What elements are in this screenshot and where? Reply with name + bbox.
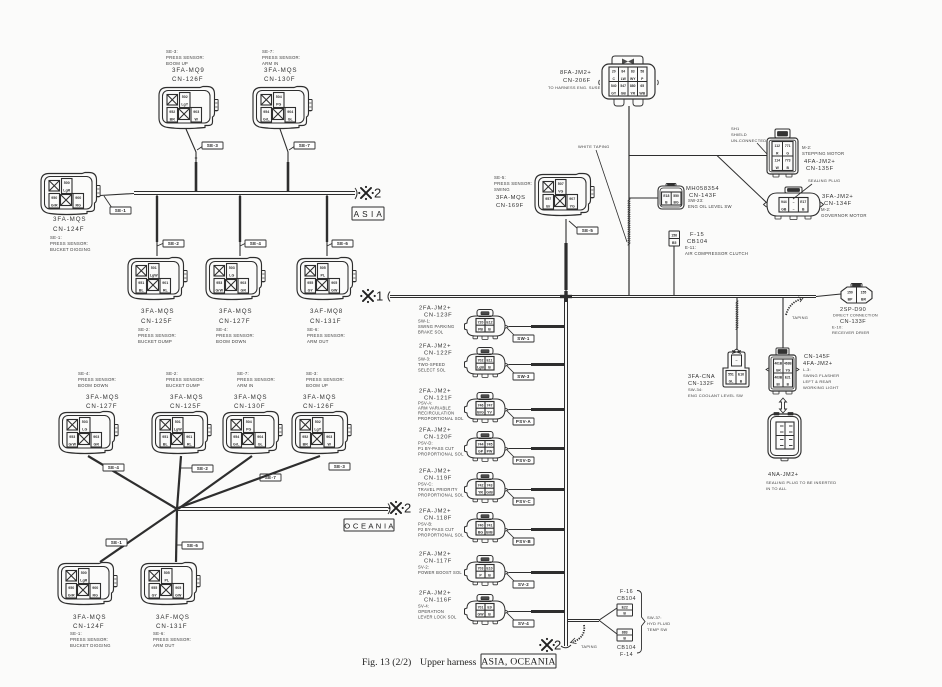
svg-text:CN-133F: CN-133F <box>840 319 866 325</box>
svg-text:701: 701 <box>478 606 484 610</box>
svg-text:3FA-MQS: 3FA-MQS <box>141 308 174 315</box>
svg-text:65: 65 <box>640 84 644 88</box>
svg-text:SV-4:: SV-4: <box>418 604 429 609</box>
svg-text:BR: BR <box>861 297 866 301</box>
taping arc near receiver drier <box>786 299 801 315</box>
svg-text:3FA-MQS: 3FA-MQS <box>264 67 297 74</box>
svg-text:900: 900 <box>75 196 81 200</box>
svg-text:ENG OIL LEVEL SW: ENG OIL LEVEL SW <box>688 204 732 209</box>
svg-text:955: 955 <box>307 281 313 285</box>
svg-text:TAPING: TAPING <box>581 644 597 649</box>
label box SE-6 (oceania) <box>176 544 183 546</box>
connector CN-126F press sensor boom up (ASIA) <box>159 87 218 129</box>
wire CN-116F to spine <box>509 611 564 613</box>
svg-text:E11: E11 <box>486 359 492 363</box>
wire CN-206F down to bus *1 (white taping) <box>628 106 630 295</box>
svg-text:SE-4: SE-4 <box>250 241 262 246</box>
svg-text:112: 112 <box>775 144 781 148</box>
svg-text:SEALING PLUG: SEALING PLUG <box>808 178 840 183</box>
svg-text:PRESS SENSOR:: PRESS SENSOR: <box>237 377 275 382</box>
wire CN-130F to ASIA bus <box>280 129 288 191</box>
svg-text:PROPORTIONAL SOL: PROPORTIONAL SOL <box>418 532 464 537</box>
svg-text:SHIELD: SHIELD <box>731 132 747 137</box>
label box SE-3 (oceania) <box>329 463 350 470</box>
svg-text:744: 744 <box>478 443 484 447</box>
svg-text:ENG COOLANT LEVEL SW: ENG COOLANT LEVEL SW <box>688 393 743 398</box>
svg-text:BUCKET DIGGING: BUCKET DIGGING <box>70 643 111 648</box>
svg-text:SV-4: SV-4 <box>518 621 529 626</box>
svg-text:GrW: GrW <box>68 442 76 446</box>
svg-text:TWO-SPEED: TWO-SPEED <box>418 362 445 367</box>
svg-text:944: 944 <box>781 200 787 204</box>
svg-text:BOOM UP: BOOM UP <box>166 61 188 66</box>
svg-text:ARM IN: ARM IN <box>262 61 279 66</box>
svg-text:ARM IN: ARM IN <box>237 383 254 388</box>
svg-text:703: 703 <box>478 567 484 571</box>
svg-text:YV: YV <box>487 411 492 415</box>
label box SE-1 (oceania) <box>106 539 127 546</box>
svg-text:747: 747 <box>487 404 493 408</box>
svg-text:2FA-JM2+: 2FA-JM2+ <box>419 591 451 597</box>
svg-text:P1 BY-PASS CUT: P1 BY-PASS CUT <box>418 446 455 451</box>
svg-text:954: 954 <box>233 435 239 439</box>
label box SE-4 <box>240 243 246 246</box>
connector CN-132F coolant level switch <box>723 349 749 387</box>
svg-text:CN-206F: CN-206F <box>563 78 591 84</box>
svg-text:83: 83 <box>631 70 635 74</box>
label box SE-6 <box>327 243 333 246</box>
svg-text:SE-4: SE-4 <box>108 465 120 470</box>
connector F-15 CB104 air compressor clutch <box>669 231 680 246</box>
svg-text:PRESS SENSOR:: PRESS SENSOR: <box>306 377 344 382</box>
svg-text:SV-2: SV-2 <box>518 582 529 587</box>
svg-text:CN-130F: CN-130F <box>264 76 295 83</box>
svg-text:PRESS SENSOR:: PRESS SENSOR: <box>307 333 345 338</box>
svg-text:Br: Br <box>546 204 551 208</box>
svg-text:3FA-MQS: 3FA-MQS <box>234 394 267 401</box>
svg-text:155: 155 <box>861 290 867 294</box>
svg-text:LgY: LgY <box>181 103 188 107</box>
connector CN-126F press sensor boom up (OCEANIA) <box>292 412 351 454</box>
svg-text:883: 883 <box>622 631 628 635</box>
svg-text:BrG: BrG <box>477 411 484 415</box>
svg-text:773: 773 <box>785 159 791 163</box>
svg-text:M-2:: M-2: <box>821 207 831 212</box>
svg-text:PRESS SENSOR:: PRESS SENSOR: <box>153 637 191 642</box>
label box SE-7 <box>289 146 295 150</box>
label box SE-2 (oceania) <box>180 467 193 469</box>
svg-text:PB: PB <box>478 328 483 332</box>
svg-text:503: 503 <box>82 420 88 424</box>
svg-text:GOVERNOR MOTOR: GOVERNOR MOTOR <box>821 213 867 218</box>
ASIA bus (*2) <box>134 191 355 193</box>
svg-text:BUCKET DUMP: BUCKET DUMP <box>166 383 200 388</box>
label box SE-4 (oceania) <box>103 464 124 471</box>
svg-text:PRESS SENSOR:: PRESS SENSOR: <box>70 637 108 642</box>
svg-text:SE-5: SE-5 <box>582 228 594 233</box>
svg-text:SE-7:: SE-7: <box>262 49 274 54</box>
svg-text:3FA-MQS: 3FA-MQS <box>170 394 203 401</box>
svg-text:OPERATION: OPERATION <box>418 609 444 614</box>
svg-text:W: W <box>195 117 199 121</box>
wire CN-169F to bus *1 <box>565 219 567 295</box>
svg-text:SELECT SOL: SELECT SOL <box>418 367 446 372</box>
svg-text:PSV-C: PSV-C <box>516 499 532 504</box>
svg-text:503: 503 <box>229 266 235 270</box>
svg-text:SWING: SWING <box>494 187 510 192</box>
svg-text:VG: VG <box>558 190 563 194</box>
svg-text:GW: GW <box>331 288 338 292</box>
svg-text:907: 907 <box>569 197 575 201</box>
svg-text:E10: E10 <box>486 567 492 571</box>
svg-text:2FA-JM2+: 2FA-JM2+ <box>419 344 451 350</box>
svg-text:CN-127F: CN-127F <box>219 318 250 325</box>
svg-text:GW: GW <box>477 613 484 617</box>
connector CN-133F receiver drier <box>841 284 872 304</box>
svg-text:B5: B5 <box>672 241 676 245</box>
svg-text:SE-2:: SE-2: <box>138 327 150 332</box>
wire CN-126F to ASIA bus <box>186 129 196 191</box>
wire branch to oil level switch <box>629 197 658 199</box>
svg-text:CN-124F: CN-124F <box>73 623 104 630</box>
svg-text:E16: E16 <box>738 373 744 377</box>
connector CN-135F stepping motor <box>767 129 798 177</box>
svg-text:BG: BG <box>674 200 679 204</box>
label box SE-7 (oceania) <box>260 474 281 481</box>
svg-text:547: 547 <box>620 84 626 88</box>
reference mark *2 (spine bottom) <box>542 640 552 650</box>
connector 4NA-JM2+ sealing plug <box>768 413 801 461</box>
svg-text:CN-124F: CN-124F <box>53 226 84 233</box>
label box SE-3 <box>197 146 203 150</box>
connector CN-134F governor motor <box>764 187 824 220</box>
svg-text:LgB: LgB <box>477 366 484 370</box>
label box SW-3 <box>507 366 515 374</box>
svg-text:SW-1: SW-1 <box>517 336 530 341</box>
svg-text:951: 951 <box>162 435 168 439</box>
svg-text:Fig. 13 (2/2): Fig. 13 (2/2) <box>362 657 411 668</box>
svg-text:SH1: SH1 <box>731 126 740 131</box>
svg-text:CN-126F: CN-126F <box>172 76 203 83</box>
svg-text:GrL: GrL <box>233 442 240 446</box>
svg-text:742: 742 <box>478 484 484 488</box>
svg-text:BL: BL <box>163 442 169 446</box>
svg-text:BP: BP <box>848 297 853 301</box>
label box PSV-D <box>507 450 515 458</box>
wire drop to CN-131F <box>326 195 328 256</box>
svg-text:HYD FLUID: HYD FLUID <box>647 621 670 626</box>
svg-text:YR: YR <box>630 91 635 95</box>
svg-text:2: 2 <box>554 638 561 653</box>
svg-text:905: 905 <box>175 586 181 590</box>
leader shield <box>757 143 767 154</box>
svg-text:GR: GR <box>94 442 100 446</box>
svg-text:GL: GL <box>258 442 264 446</box>
svg-text:RECEIVER DRIER: RECEIVER DRIER <box>832 330 870 335</box>
svg-text:GY: GY <box>308 288 314 292</box>
svg-text:4FA-JM2+: 4FA-JM2+ <box>804 159 835 165</box>
svg-text:2FA-JM2+: 2FA-JM2+ <box>419 389 451 395</box>
svg-text:LgW: LgW <box>174 428 182 432</box>
svg-text:903: 903 <box>93 435 99 439</box>
wire CN-130F oceania to junction <box>178 456 252 509</box>
svg-text:540: 540 <box>611 84 617 88</box>
svg-text:500: 500 <box>81 571 87 575</box>
svg-text:3FA-MQS: 3FA-MQS <box>73 614 106 621</box>
connector CN-124F press sensor bucket digging (ASIA) <box>41 173 100 215</box>
svg-text:TEMP SW: TEMP SW <box>647 627 667 632</box>
svg-text:W: W <box>328 442 332 446</box>
svg-text:SE-3:: SE-3: <box>166 49 178 54</box>
svg-text:SW-23:: SW-23: <box>688 198 704 203</box>
wire branch to governor motor <box>717 156 767 204</box>
svg-text:905: 905 <box>331 281 337 285</box>
svg-text:E22: E22 <box>622 606 628 610</box>
wire CN-123F to spine <box>509 326 564 328</box>
svg-text:502: 502 <box>182 95 188 99</box>
svg-text:CN-125F: CN-125F <box>141 318 172 325</box>
svg-text:SV-2:: SV-2: <box>418 565 429 570</box>
svg-text:504: 504 <box>246 420 252 424</box>
svg-text:953: 953 <box>69 435 75 439</box>
svg-text:501: 501 <box>151 266 157 270</box>
svg-text:LG: LG <box>229 274 234 278</box>
OCEANIA box label <box>344 519 394 531</box>
svg-text:505: 505 <box>320 266 326 270</box>
svg-text:PSV-D: PSV-D <box>516 458 531 463</box>
svg-text:156: 156 <box>671 234 677 238</box>
wire junction to CN-124F (oceania) <box>100 509 177 562</box>
svg-text:3FA-MQS: 3FA-MQS <box>496 195 526 201</box>
svg-text:WHITE TAPING: WHITE TAPING <box>578 144 610 149</box>
connector CN-127F press sensor boom down (OCEANIA) <box>59 412 118 454</box>
svg-text:PROPORTIONAL SOL: PROPORTIONAL SOL <box>418 451 464 456</box>
leader white taping <box>596 150 627 242</box>
svg-text:951: 951 <box>138 281 144 285</box>
svg-text:TRAVEL PRIORITY: TRAVEL PRIORITY <box>418 487 458 492</box>
svg-text:Upper harness: Upper harness <box>420 657 477 668</box>
svg-text:903: 903 <box>326 435 332 439</box>
wire spine to temp switch fuses <box>568 619 599 621</box>
bus end to receiver drier <box>816 294 841 297</box>
svg-text:SE-7: SE-7 <box>299 143 311 148</box>
svg-text:G: G <box>786 151 789 155</box>
svg-text:903: 903 <box>240 281 246 285</box>
svg-text:SW-1:: SW-1: <box>418 319 431 324</box>
svg-text:LW: LW <box>621 77 627 81</box>
svg-text:P2 BY-PASS CUT: P2 BY-PASS CUT <box>418 527 455 532</box>
svg-text:3FA-MQS: 3FA-MQS <box>219 308 252 315</box>
svg-text:GY: GY <box>611 91 617 95</box>
fuse box E22 (F-16) <box>617 604 633 616</box>
svg-text:CN-135F: CN-135F <box>806 166 834 172</box>
svg-text:PL: PL <box>164 579 169 583</box>
svg-text:GrR: GrR <box>51 203 58 207</box>
double arrow to sealing plug <box>780 398 787 413</box>
svg-text:741: 741 <box>487 524 493 528</box>
svg-text:PRESS SENSOR:: PRESS SENSOR: <box>78 377 116 382</box>
svg-text:LgY: LgY <box>314 428 321 432</box>
wire CN-125F oceania to junction <box>177 456 181 509</box>
connector CN-130F press sensor arm in (OCEANIA) <box>223 412 282 454</box>
svg-text:AIR COMPRESSOR CLUTCH: AIR COMPRESSOR CLUTCH <box>685 251 748 256</box>
svg-text:901: 901 <box>186 435 192 439</box>
connector CN-125F press sensor bucket dump (ASIA) <box>128 258 187 300</box>
svg-text:2SP-D90: 2SP-D90 <box>840 307 866 313</box>
svg-text:SE-2: SE-2 <box>168 241 180 246</box>
svg-text:YR: YR <box>478 491 483 495</box>
svg-text:PSV-D:: PSV-D: <box>418 441 433 446</box>
svg-text:551: 551 <box>728 373 734 377</box>
svg-text:746: 746 <box>478 404 484 408</box>
svg-text:SE-2:: SE-2: <box>166 371 178 376</box>
svg-text:TO HARNESS ENG. SUSE: TO HARNESS ENG. SUSE <box>548 85 601 90</box>
svg-text:950: 950 <box>51 196 57 200</box>
svg-text:LgW: LgW <box>150 274 158 278</box>
svg-text:E18: E18 <box>663 194 669 198</box>
svg-text:702: 702 <box>478 359 484 363</box>
connector CN-206F to harness engine <box>599 56 659 106</box>
svg-text:PRESS SENSOR:: PRESS SENSOR: <box>138 333 176 338</box>
wire CN-117F to spine <box>509 572 564 574</box>
svg-text:A S I A: A S I A <box>354 210 383 219</box>
svg-text:PRESS SENSOR:: PRESS SENSOR: <box>166 55 204 60</box>
svg-text:–: – <box>793 207 795 211</box>
wire CN-124F to ASIA bus <box>100 194 134 196</box>
svg-text:PRESS SENSOR:: PRESS SENSOR: <box>166 377 204 382</box>
svg-text:PRESS SENSOR:: PRESS SENSOR: <box>216 333 254 338</box>
svg-text:E-10:: E-10: <box>832 325 843 330</box>
svg-text:3FA-MQS: 3FA-MQS <box>303 394 336 401</box>
svg-text:CN-130F: CN-130F <box>234 403 265 410</box>
spine bus vertical *2 <box>564 298 566 646</box>
svg-text:GR: GR <box>241 288 247 292</box>
svg-text:E21: E21 <box>785 375 791 379</box>
svg-text:952: 952 <box>169 110 175 114</box>
wire CN-120F to spine <box>509 448 564 450</box>
svg-text:O C E A N I A: O C E A N I A <box>344 522 394 531</box>
svg-text:SE-4:: SE-4: <box>216 327 228 332</box>
svg-text:502: 502 <box>315 420 321 424</box>
connector CN-124F press sensor bucket digging (OCEANIA) <box>58 563 117 605</box>
svg-text:900: 900 <box>92 586 98 590</box>
svg-text:2FA-JM2+: 2FA-JM2+ <box>419 306 451 312</box>
svg-text:954: 954 <box>263 110 269 114</box>
fuse box 883 (F-14) <box>617 629 633 641</box>
svg-text:PRESS SENSOR:: PRESS SENSOR: <box>262 55 300 60</box>
svg-text:PSV-C:: PSV-C: <box>418 482 433 487</box>
svg-text:4NA-JM2+: 4NA-JM2+ <box>768 472 799 478</box>
svg-text:SW-3: SW-3 <box>517 374 530 379</box>
svg-text:3FA-MQ9: 3FA-MQ9 <box>172 67 205 74</box>
svg-text:YG: YG <box>570 204 575 208</box>
svg-text:GY: GY <box>152 593 158 597</box>
svg-text:BrB: BrB <box>486 531 493 535</box>
svg-text:E12: E12 <box>486 321 492 325</box>
wire CN-119F to spine <box>509 489 564 491</box>
svg-text:2: 2 <box>374 186 381 201</box>
svg-text:740: 740 <box>478 524 484 528</box>
svg-text:953: 953 <box>216 281 222 285</box>
svg-text:3FA-JM2+: 3FA-JM2+ <box>822 194 853 200</box>
wire CN-122F to spine <box>509 364 564 366</box>
svg-text:SE-4:: SE-4: <box>78 371 90 376</box>
svg-text:SE-3: SE-3 <box>207 143 219 148</box>
svg-text:SE-6: SE-6 <box>187 543 199 548</box>
svg-text:SW-34:: SW-34: <box>688 387 703 392</box>
connector CN-143F oil level switch <box>658 184 684 210</box>
wire bus to CN-145F <box>782 298 784 348</box>
svg-text:F-14: F-14 <box>620 652 633 658</box>
label box SE-1 <box>104 196 112 208</box>
svg-text:463B: 463B <box>784 361 792 365</box>
svg-text:BOOM UP: BOOM UP <box>306 383 328 388</box>
label box PSV-A <box>507 411 515 419</box>
connector CN-145F swing flasher <box>766 348 799 394</box>
svg-text:SE-3:: SE-3: <box>306 371 318 376</box>
svg-text:901: 901 <box>162 281 168 285</box>
svg-text:BL: BL <box>139 288 145 292</box>
label box SE-5 <box>569 221 578 229</box>
svg-text:BG: BG <box>478 531 484 535</box>
svg-text:SEALING PLUG TO BE INSERTED: SEALING PLUG TO BE INSERTED <box>766 480 836 485</box>
svg-text:GrB: GrB <box>486 491 493 495</box>
main bus *1 <box>388 292 390 302</box>
svg-text:1: 1 <box>376 289 383 304</box>
svg-text:PSV-B:: PSV-B: <box>418 522 433 527</box>
svg-text:GP: GP <box>478 450 484 454</box>
svg-text:461B: 461B <box>774 361 782 365</box>
ASIA box label <box>352 207 384 220</box>
svg-text:STEPPING MOTOR: STEPPING MOTOR <box>802 151 844 156</box>
reference mark *2 (ASIA bus) <box>361 188 371 198</box>
svg-text:GB: GB <box>781 207 787 211</box>
label box SV-2 <box>507 574 515 582</box>
svg-text:GL: GL <box>729 379 734 383</box>
svg-text:LgR: LgR <box>80 579 87 583</box>
wire drop to CN-125F <box>156 195 158 256</box>
svg-text:SWING PARKING: SWING PARKING <box>418 324 454 329</box>
svg-text:RG: RG <box>93 593 99 597</box>
svg-text:SE-2: SE-2 <box>197 466 209 471</box>
svg-text:BRAKE SOL: BRAKE SOL <box>418 329 444 334</box>
svg-text:GrR: GrR <box>68 593 75 597</box>
svg-text:BR: BR <box>170 117 176 121</box>
wire CN-118F to spine <box>509 529 564 531</box>
svg-text:PROPORTIONAL SOL: PROPORTIONAL SOL <box>418 416 464 421</box>
wire F-15 down to bus *1 <box>673 246 675 295</box>
svg-text:3AF-MQ8: 3AF-MQ8 <box>310 308 343 315</box>
wire drop to CN-127F <box>239 195 241 256</box>
svg-text:2FA-JM2+: 2FA-JM2+ <box>419 509 451 515</box>
svg-text:WY: WY <box>630 77 636 81</box>
svg-text:BR: BR <box>303 442 309 446</box>
svg-text:PRESS SENSOR:: PRESS SENSOR: <box>494 181 532 186</box>
svg-text:SE-1:: SE-1: <box>70 631 82 636</box>
svg-text:CB104: CB104 <box>617 596 636 602</box>
svg-text:LEVER LOCK SOL: LEVER LOCK SOL <box>418 614 457 619</box>
svg-text:PSV-A: PSV-A <box>516 419 532 424</box>
svg-text:3FA-MQS: 3FA-MQS <box>86 394 119 401</box>
connector CN-127F press sensor boom down (ASIA) <box>206 258 265 300</box>
svg-text:TAPING: TAPING <box>792 315 808 320</box>
bus junction cross <box>560 295 572 298</box>
svg-text:3FA-CNA: 3FA-CNA <box>688 374 715 380</box>
svg-text:771: 771 <box>785 144 791 148</box>
svg-text:2: 2 <box>404 501 411 516</box>
svg-text:PRESS SENSOR:: PRESS SENSOR: <box>50 241 88 246</box>
svg-text:904: 904 <box>287 110 293 114</box>
